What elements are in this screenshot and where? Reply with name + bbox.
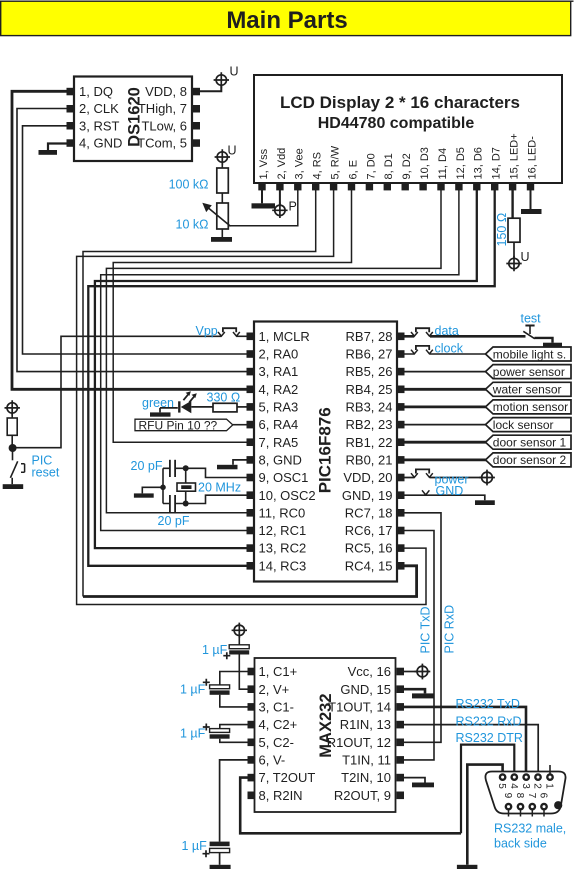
svg-text:door sensor 1: door sensor 1 bbox=[493, 436, 567, 450]
svg-text:8, GND: 8, GND bbox=[259, 453, 302, 468]
wire PIC RC6 to MAX232 T1IN (PIC TxD) bbox=[404, 531, 434, 760]
svg-text:2, V+: 2, V+ bbox=[259, 682, 290, 697]
svg-text:3, RST: 3, RST bbox=[79, 118, 120, 133]
DS1620 pin 8 VDD bbox=[193, 88, 201, 96]
svg-text:13, RC2: 13, RC2 bbox=[259, 541, 307, 556]
wire 100k to potentiometer bbox=[221, 193, 223, 203]
svg-text:20 pF: 20 pF bbox=[131, 459, 163, 473]
capacitor 20 pF (top, OSC1) bbox=[131, 459, 186, 477]
LCD pin 16 LED- bbox=[527, 183, 534, 190]
tag mobile light s. bbox=[486, 347, 572, 361]
DS1620 pin 2 CLK bbox=[67, 105, 75, 113]
wire 330 Ohm to PIC RA3 bbox=[237, 406, 247, 408]
resistor (reset pull-up) bbox=[7, 413, 17, 445]
wire DTR riser to DB9 pin 4 (RS232 DTR) bbox=[461, 745, 514, 834]
wire DS1620 VDD to U supply bbox=[200, 85, 221, 91]
svg-text:10, D3: 10, D3 bbox=[419, 147, 431, 179]
DB9 pin 5 bbox=[500, 774, 505, 779]
svg-text:16, LED-: 16, LED- bbox=[526, 136, 538, 180]
pushbutton PIC reset bbox=[10, 451, 24, 485]
svg-text:lock sensor: lock sensor bbox=[493, 418, 554, 432]
svg-text:7, D0: 7, D0 bbox=[365, 153, 377, 179]
resistor 100 kOhm bbox=[169, 162, 229, 193]
ground at PIC GND 19 bbox=[475, 500, 495, 505]
svg-text:8, D1: 8, D1 bbox=[383, 153, 395, 179]
wire PIC RB0 to tag bbox=[404, 458, 486, 461]
svg-text:RS232 TxD: RS232 TxD bbox=[456, 697, 520, 711]
power symbol U (above 100k resistor) bbox=[215, 144, 237, 165]
svg-text:4, RS: 4, RS bbox=[312, 152, 324, 180]
svg-text:U: U bbox=[228, 144, 237, 158]
svg-text:GND: GND bbox=[436, 484, 464, 498]
svg-text:RS232 DTR: RS232 DTR bbox=[456, 731, 523, 745]
wire crystal top to PIC OSC1 bbox=[186, 468, 247, 477]
svg-text:test: test bbox=[521, 311, 542, 325]
wire PIC RB2 to tag bbox=[404, 424, 486, 426]
svg-text:6: 6 bbox=[538, 793, 549, 799]
svg-text:2, CLK: 2, CLK bbox=[79, 101, 119, 116]
svg-text:reset: reset bbox=[32, 466, 60, 480]
svg-text:GND, 15: GND, 15 bbox=[340, 682, 391, 697]
svg-text:VDD, 8: VDD, 8 bbox=[145, 84, 187, 99]
svg-text:VDD, 20: VDD, 20 bbox=[343, 470, 392, 485]
wire DS1620 DQ to PIC RA2 bbox=[12, 91, 247, 389]
svg-text:data: data bbox=[435, 324, 459, 338]
LCD pin 8 D1 bbox=[384, 183, 391, 190]
wire PIC RB6 to clock connector and tag bbox=[404, 353, 486, 355]
svg-text:door sensor 2: door sensor 2 bbox=[493, 453, 567, 467]
power symbol (MAX232 Vcc) bbox=[415, 664, 431, 680]
MAX232 pin 7, T2OUT / T2IN, 10 bbox=[248, 774, 256, 782]
wire MAX232 R1IN to DB9 pin 2 (RS232 RxD) bbox=[404, 725, 538, 774]
ground at MAX232 GND 15 bbox=[404, 689, 434, 698]
connector symbol data bbox=[411, 328, 433, 336]
DB9 pin 8 bbox=[518, 804, 523, 809]
svg-text:LCD Display 2 * 16 characters: LCD Display 2 * 16 characters bbox=[280, 93, 520, 112]
svg-text:20 pF: 20 pF bbox=[158, 514, 190, 528]
connector symbol Vpp bbox=[218, 328, 240, 336]
connector symbol power bbox=[411, 469, 433, 477]
svg-text:6, E: 6, E bbox=[347, 160, 359, 180]
IC MAX232 bbox=[248, 658, 405, 812]
svg-text:power sensor: power sensor bbox=[493, 365, 565, 379]
svg-text:RB7, 28: RB7, 28 bbox=[346, 329, 393, 344]
wire DS1620 RST to PIC RA0 bbox=[23, 126, 247, 354]
ground at LCD pin 1 Vss bbox=[252, 190, 276, 209]
svg-text:green: green bbox=[142, 396, 174, 410]
svg-text:11, RC0: 11, RC0 bbox=[259, 505, 306, 520]
svg-text:Vpp: Vpp bbox=[196, 324, 218, 338]
svg-text:5, RA3: 5, RA3 bbox=[259, 400, 299, 415]
svg-text:1, DQ: 1, DQ bbox=[79, 84, 113, 99]
tag power sensor bbox=[486, 365, 572, 379]
PIC pin 3, RA1 / RB5, 26 bbox=[247, 368, 255, 376]
LCD pin 10 D3 bbox=[419, 183, 426, 190]
svg-text:4, C2+: 4, C2+ bbox=[259, 717, 298, 732]
wire PIC RC7 to MAX232 R1OUT (PIC RxD) bbox=[404, 513, 441, 743]
svg-text:GND, 19: GND, 19 bbox=[342, 488, 393, 503]
wire DB9 pin 5 to ground bbox=[467, 765, 502, 865]
wire PIC VDD 20 to power connector bbox=[404, 477, 481, 479]
svg-text:R1IN, 13: R1IN, 13 bbox=[340, 717, 391, 732]
svg-text:PIC16F876: PIC16F876 bbox=[316, 407, 335, 493]
connector half symbol GND bbox=[422, 490, 429, 495]
svg-text:clock: clock bbox=[435, 341, 464, 355]
svg-text:back side: back side bbox=[494, 837, 547, 851]
svg-text:7: 7 bbox=[526, 793, 537, 799]
LCD pin 1 Vss bbox=[258, 183, 265, 190]
svg-text:Vcc, 16: Vcc, 16 bbox=[348, 664, 391, 679]
wire LCD pin 5 R/W to PIC RC5 (via left bus) bbox=[77, 190, 426, 605]
DB9 shell dot bbox=[554, 801, 562, 809]
DS1620 pin 6 TLow bbox=[193, 122, 201, 130]
svg-text:15, LED+: 15, LED+ bbox=[509, 133, 521, 179]
svg-text:RC6, 17: RC6, 17 bbox=[345, 523, 393, 538]
DS1620 pin 1 DQ bbox=[67, 88, 75, 96]
wire LCD pin 4 RS to PIC RC4 (via left bus) bbox=[83, 190, 417, 597]
DS1620 pin 3 RST bbox=[67, 122, 75, 130]
svg-text:RB1, 22: RB1, 22 bbox=[346, 435, 393, 450]
tag water sensor bbox=[486, 382, 572, 396]
wire PIC RB5 to tag bbox=[404, 371, 486, 373]
power symbol (MAX232 charge cap) bbox=[232, 623, 247, 638]
node crystal caps junction bbox=[160, 485, 166, 491]
svg-text:1, MCLR: 1, MCLR bbox=[259, 329, 310, 344]
LCD pin 3 Vee bbox=[294, 183, 301, 190]
svg-text:14, D7: 14, D7 bbox=[491, 147, 503, 179]
svg-text:RFU Pin 10 ??: RFU Pin 10 ?? bbox=[139, 418, 218, 432]
svg-text:13, D6: 13, D6 bbox=[473, 147, 485, 179]
wire PIC RB4 to tag bbox=[404, 388, 486, 391]
LCD pin 5 R/W bbox=[330, 183, 337, 190]
svg-text:1, Vss: 1, Vss bbox=[258, 148, 270, 179]
resistor 330 Ohm bbox=[207, 390, 241, 412]
wire capacitors common leg bbox=[162, 468, 164, 503]
svg-text:RC7, 18: RC7, 18 bbox=[345, 505, 393, 520]
LCD pin 7 D0 bbox=[366, 183, 373, 190]
wire MAX232 V- to bottom cap bbox=[220, 760, 248, 842]
ground at DS1620 pin 4 bbox=[39, 144, 67, 155]
svg-text:U: U bbox=[230, 65, 239, 79]
svg-text:1: 1 bbox=[544, 783, 555, 789]
svg-text:2: 2 bbox=[532, 783, 543, 789]
wire pot wiper to LCD pin 3 Vee bbox=[230, 190, 298, 226]
LCD pin 15 LED+ bbox=[509, 183, 516, 190]
DS1620 pin 7 THigh bbox=[193, 105, 201, 113]
IC PIC16F876 bbox=[247, 322, 405, 582]
LED green with ground bbox=[150, 391, 197, 416]
svg-text:7, T2OUT: 7, T2OUT bbox=[259, 770, 316, 785]
resistor 150 Ohm (LCD backlight) bbox=[495, 190, 520, 247]
PIC pin 8, GND / RB0, 21 bbox=[247, 456, 255, 464]
svg-text:8, R2IN: 8, R2IN bbox=[259, 788, 303, 803]
svg-text:THigh, 7: THigh, 7 bbox=[138, 101, 187, 116]
ground at V- cap bbox=[210, 853, 231, 869]
MAX232 pin 1, C1+ / Vcc, 16 bbox=[248, 668, 256, 676]
wire top cap to MAX232 V+ pin 2 bbox=[239, 655, 247, 690]
pushbutton test bbox=[523, 326, 552, 343]
wire LCD pin 6 E to PIC RA5 bbox=[113, 190, 351, 442]
svg-text:5: 5 bbox=[496, 783, 507, 789]
MAX232 pin 8, R2IN / R2OUT, 9 bbox=[248, 792, 256, 800]
MAX232 pin 5, C2- / R1OUT, 12 bbox=[248, 739, 256, 747]
wire PIC RB3 to tag bbox=[404, 405, 486, 408]
svg-text:4: 4 bbox=[508, 783, 519, 789]
wire PIC RB7 to data connector and test button bbox=[404, 335, 526, 338]
svg-text:1 µF: 1 µF bbox=[202, 643, 228, 657]
wire LCD pin 11 D4 to PIC RC0 bbox=[106, 190, 441, 513]
MAX232 pin 2, V+ / GND, 15 bbox=[248, 685, 256, 693]
svg-text:RS232 male,: RS232 male, bbox=[494, 822, 566, 836]
svg-text:RS232 RxD: RS232 RxD bbox=[456, 714, 522, 728]
svg-text:8: 8 bbox=[514, 793, 525, 799]
svg-text:PIC TxD: PIC TxD bbox=[419, 607, 433, 654]
PIC pin 14, RC3 / RC4, 15 bbox=[247, 562, 255, 570]
PIC pin 6, RA4 / RB2, 23 bbox=[247, 421, 255, 429]
MAX232 pin 4, C2+ / R1IN, 13 bbox=[248, 721, 256, 729]
title bar bbox=[1, 1, 574, 36]
ground at crystal caps bbox=[134, 487, 163, 497]
svg-text:mobile light s.: mobile light s. bbox=[493, 347, 566, 361]
tag RFU Pin 10 ?? to PIC RA4 bbox=[135, 418, 247, 432]
power symbol (PIC VDD) bbox=[479, 470, 495, 486]
svg-text:4, GND: 4, GND bbox=[79, 136, 122, 151]
wire LED to 330 Ohm resistor bbox=[191, 406, 213, 408]
node reset junction bbox=[9, 444, 17, 452]
svg-text:U: U bbox=[521, 250, 530, 264]
svg-text:1 µF: 1 µF bbox=[180, 726, 206, 740]
svg-text:5, C2-: 5, C2- bbox=[259, 735, 294, 750]
ground at PIC pin 8 GND bbox=[217, 460, 247, 469]
svg-text:14, RC3: 14, RC3 bbox=[259, 558, 307, 573]
wire PIC RB1 to tag bbox=[404, 441, 486, 444]
connector DB9 RS232 male back side bbox=[485, 765, 565, 817]
MAX232 pin 3, C1- / T1OUT, 14 bbox=[248, 703, 256, 711]
svg-text:motion sensor: motion sensor bbox=[493, 400, 568, 414]
LCD pin 12 D5 bbox=[455, 183, 462, 190]
svg-text:RB6, 27: RB6, 27 bbox=[346, 347, 393, 362]
wire PIC GND 19 to ground bbox=[404, 495, 485, 500]
DB9 pin 7 bbox=[530, 804, 535, 809]
wire MAX232 T1OUT to DB9 pin 3 (RS232 TxD) bbox=[404, 707, 526, 774]
power symbol P (LCD pin 2 Vdd) bbox=[272, 190, 297, 218]
wire crystal bottom to PIC OSC2 bbox=[186, 495, 247, 503]
PIC pin 13, RC2 / RC5, 16 bbox=[247, 544, 255, 552]
ground at test button bbox=[543, 343, 562, 348]
LCD pin 6 E bbox=[348, 183, 355, 190]
PIC pin 2, RA0 / RB6, 27 bbox=[247, 350, 255, 358]
svg-text:10 kΩ: 10 kΩ bbox=[176, 218, 209, 232]
svg-text:T1OUT, 14: T1OUT, 14 bbox=[328, 700, 391, 715]
capacitor 20 pF (bottom, OSC2) bbox=[158, 495, 190, 528]
svg-text:TLow, 6: TLow, 6 bbox=[141, 118, 187, 133]
wire LCD pin 14 D7 to PIC RC3 bbox=[88, 190, 494, 566]
svg-text:RB4, 25: RB4, 25 bbox=[346, 382, 393, 397]
DB9 pin 6 bbox=[541, 804, 546, 809]
PIC pin 4, RA2 / RB4, 25 bbox=[247, 386, 255, 394]
svg-text:6, RA4: 6, RA4 bbox=[259, 417, 299, 432]
svg-text:9, OSC1: 9, OSC1 bbox=[259, 470, 309, 485]
svg-text:1, C1+: 1, C1+ bbox=[259, 664, 298, 679]
svg-text:150 Ω: 150 Ω bbox=[495, 213, 509, 247]
PIC pin 5, RA3 / RB3, 24 bbox=[247, 403, 255, 411]
PIC pin 11, RC0 / RC7, 18 bbox=[247, 509, 255, 517]
DB9 pin 1 bbox=[549, 765, 551, 774]
svg-text:3, RA1: 3, RA1 bbox=[259, 364, 299, 379]
svg-text:11, D4: 11, D4 bbox=[437, 148, 449, 180]
wire MAX232 Vcc to power bbox=[404, 671, 417, 673]
svg-text:20 MHz: 20 MHz bbox=[198, 480, 241, 494]
svg-text:HD44780 compatible: HD44780 compatible bbox=[318, 115, 475, 132]
svg-text:T1IN, 11: T1IN, 11 bbox=[342, 753, 391, 768]
DB9 pin 3 bbox=[524, 774, 529, 779]
ground at LCD pin 16 LED- bbox=[521, 190, 542, 214]
svg-text:3: 3 bbox=[520, 783, 531, 789]
svg-text:RB5, 26: RB5, 26 bbox=[346, 364, 393, 379]
svg-text:9, D2: 9, D2 bbox=[401, 153, 413, 179]
potentiometer 10 kOhm bbox=[176, 203, 231, 232]
svg-text:RC4, 15: RC4, 15 bbox=[345, 558, 393, 573]
MAX232 pin 6, V- / T1IN, 11 bbox=[248, 756, 256, 764]
DS1620 pin 5 TCom bbox=[193, 139, 201, 147]
wire LCD pin 12 D5 to PIC RC1 bbox=[101, 190, 459, 531]
power symbol U (below 150 Ohm) bbox=[506, 242, 529, 271]
power symbol U (DS1620 VDD) bbox=[214, 65, 239, 88]
LCD pin 11 D4 bbox=[437, 183, 444, 190]
svg-text:3, Vee: 3, Vee bbox=[294, 148, 306, 179]
LCD pin 13 D6 bbox=[473, 183, 480, 190]
svg-text:4, RA2: 4, RA2 bbox=[259, 382, 299, 397]
wire DS1620 CLK to PIC RA1 bbox=[17, 109, 247, 372]
power symbol (reset pull-up supply) bbox=[5, 400, 20, 415]
ground at PIC reset button bbox=[3, 484, 24, 489]
svg-text:Main Parts: Main Parts bbox=[226, 7, 347, 34]
svg-text:P: P bbox=[289, 200, 297, 214]
svg-text:9: 9 bbox=[502, 793, 513, 799]
node crystal bottom bbox=[183, 501, 189, 507]
svg-text:1 µF: 1 µF bbox=[182, 839, 208, 853]
PIC pin 1, MCLR / RB7, 28 bbox=[247, 333, 255, 341]
ground at potentiometer bbox=[211, 229, 232, 242]
svg-text:TCom, 5: TCom, 5 bbox=[137, 136, 187, 151]
LCD display module bbox=[254, 75, 562, 190]
DB9 pin 9 bbox=[506, 804, 511, 809]
svg-text:RB0, 21: RB0, 21 bbox=[346, 453, 393, 468]
wire MAX232 T2OUT to DB9 DTR bbox=[240, 778, 461, 834]
tag motion sensor bbox=[486, 400, 572, 414]
wire reset node to PIC MCLR (via Vpp connector) bbox=[13, 336, 247, 447]
LCD pin 9 D2 bbox=[402, 183, 409, 190]
svg-text:water sensor: water sensor bbox=[492, 383, 562, 397]
wire LCD pin 13 D6 to PIC RC2 bbox=[95, 190, 477, 548]
svg-text:RB3, 24: RB3, 24 bbox=[346, 400, 393, 415]
tag door sensor 2 bbox=[486, 453, 572, 467]
capacitor 1uF (V- filter) bbox=[182, 839, 230, 857]
svg-text:10, OSC2: 10, OSC2 bbox=[259, 488, 316, 503]
DB9 pin 4 bbox=[512, 774, 517, 779]
tag door sensor 1 bbox=[486, 435, 572, 449]
svg-text:2, Vdd: 2, Vdd bbox=[276, 148, 288, 180]
crystal 20 MHz bbox=[177, 468, 241, 503]
DS1620 pin 4 GND bbox=[67, 139, 75, 147]
LCD pin 4 RS bbox=[312, 183, 319, 190]
svg-text:100 kΩ: 100 kΩ bbox=[169, 177, 209, 191]
capacitor 1uF (top, V+ to supply) bbox=[202, 636, 249, 660]
IC DS1620 bbox=[67, 77, 201, 162]
svg-text:PIC RxD: PIC RxD bbox=[443, 605, 457, 654]
capacitor 1uF (C2, pins 4-5) bbox=[180, 724, 248, 743]
svg-text:3, C1-: 3, C1- bbox=[259, 700, 294, 715]
node crystal top bbox=[183, 465, 189, 471]
svg-text:RC5, 16: RC5, 16 bbox=[345, 541, 393, 556]
PIC pin 9, OSC1 / VDD, 20 bbox=[247, 474, 255, 482]
svg-text:2, RA0: 2, RA0 bbox=[259, 347, 299, 362]
svg-text:330 Ω: 330 Ω bbox=[207, 390, 241, 404]
svg-text:12, D5: 12, D5 bbox=[455, 147, 467, 179]
PIC pin 12, RC1 / RC6, 17 bbox=[247, 527, 255, 535]
svg-text:5, R/W: 5, R/W bbox=[330, 145, 342, 179]
LCD pin 14 D7 bbox=[491, 183, 498, 190]
PIC pin 7, RA5 / RB1, 22 bbox=[247, 438, 255, 446]
svg-text:R2OUT, 9: R2OUT, 9 bbox=[334, 788, 391, 803]
ground at DB9 pin 5 bbox=[457, 865, 478, 869]
svg-text:R1OUT, 12: R1OUT, 12 bbox=[327, 735, 391, 750]
connector symbol clock bbox=[411, 346, 433, 354]
svg-text:12, RC1: 12, RC1 bbox=[259, 523, 307, 538]
svg-text:1 µF: 1 µF bbox=[180, 683, 206, 697]
svg-text:6, V-: 6, V- bbox=[259, 753, 286, 768]
PIC pin 10, OSC2 / GND, 19 bbox=[247, 491, 255, 499]
svg-text:7, RA5: 7, RA5 bbox=[259, 435, 299, 450]
svg-text:T2IN, 10: T2IN, 10 bbox=[341, 770, 391, 785]
DB9 pin 2 bbox=[535, 774, 540, 779]
svg-text:RB2, 23: RB2, 23 bbox=[346, 417, 393, 432]
ground at MAX232 T2IN 10 bbox=[404, 778, 434, 788]
tag lock sensor bbox=[486, 418, 572, 432]
capacitor 1uF (C1, pins 1-3) bbox=[180, 672, 248, 707]
LCD pin 2 Vdd bbox=[276, 183, 283, 190]
